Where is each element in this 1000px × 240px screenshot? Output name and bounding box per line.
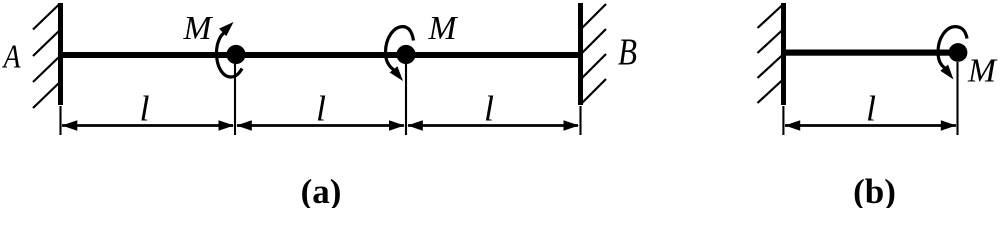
moment arrowhead 1 <box>219 22 233 36</box>
wall support A (vertical face) <box>58 3 63 105</box>
svg-text:l: l <box>316 89 326 129</box>
dimension arrow left b <box>785 120 801 130</box>
dimension line b <box>785 124 956 127</box>
extension line below node 2 <box>405 64 407 135</box>
dimension arrow left 2 <box>236 120 252 130</box>
svg-text:A: A <box>2 39 21 76</box>
dimension arrow left 3 <box>407 120 423 130</box>
beam AB <box>58 52 583 58</box>
extension line below node 3 <box>956 62 958 135</box>
moment arrowhead 2 <box>390 66 403 81</box>
wall A hatching <box>33 4 60 109</box>
dimension arrow left 1 <box>62 120 78 130</box>
node circle 2 <box>396 45 415 64</box>
cantilever beam <box>781 50 958 56</box>
extension line at wall B <box>579 106 581 135</box>
dimension arrow right b <box>941 120 957 130</box>
moment arc 1 <box>217 33 243 77</box>
svg-text:(a): (a) <box>301 172 342 208</box>
svg-text:l: l <box>484 89 494 129</box>
extension line at wall b <box>782 106 784 135</box>
moment arc 3 <box>938 27 967 69</box>
svg-text:B: B <box>618 32 637 74</box>
node circle 1 <box>226 45 245 64</box>
moment arrowhead 3 <box>940 65 953 80</box>
node circle 3 <box>949 43 968 62</box>
wall support b (vertical face) <box>781 3 786 105</box>
dimension line segment 3 <box>408 124 578 127</box>
dimension arrow right 1 <box>219 120 235 130</box>
dimension arrow right 2 <box>389 120 405 130</box>
svg-text:l: l <box>866 89 876 129</box>
dimension arrow right 3 <box>564 120 580 130</box>
dimension line segment 1 <box>62 124 233 127</box>
svg-text:M: M <box>183 10 214 47</box>
extension line at wall A <box>59 106 61 135</box>
moment arc 2 <box>386 27 414 70</box>
svg-text:l: l <box>140 89 150 129</box>
extension line below node 1 <box>234 64 236 135</box>
wall support B (vertical face) <box>578 3 583 105</box>
svg-text:M: M <box>967 53 998 90</box>
wall b hatching <box>758 5 784 104</box>
svg-text:M: M <box>428 10 459 47</box>
svg-text:(b): (b) <box>853 172 896 208</box>
wall B hatching <box>581 4 606 104</box>
dimension line segment 2 <box>237 124 404 127</box>
